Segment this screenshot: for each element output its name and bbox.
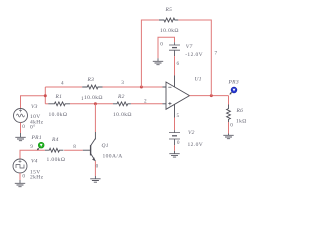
wire V7 plus to ground corner: [158, 37, 175, 58]
svg-text:R4: R4: [51, 136, 59, 143]
resistor R6: [227, 105, 231, 123]
svg-text:0: 0: [22, 124, 25, 130]
svg-text:0: 0: [160, 42, 163, 48]
svg-text:R2: R2: [117, 94, 125, 100]
wire V3 bottom to ground: [20, 123, 22, 134]
svg-text:4: 4: [61, 81, 64, 87]
svg-text:10.0kΩ: 10.0kΩ: [49, 112, 68, 118]
transistor Q1: [83, 132, 96, 161]
wire node 5 op-amp to V2: [174, 118, 176, 131]
ground at Q1 emitter: [90, 176, 100, 182]
svg-text:2: 2: [144, 99, 147, 105]
svg-text:-12.0V: -12.0V: [185, 52, 203, 58]
source V4 square: [13, 159, 27, 173]
wire output corner down to R6: [228, 96, 230, 105]
wire junction vertical to node4 row and R1 row: [44, 87, 46, 104]
ground at V4: [15, 180, 25, 187]
wire R1 row from corner to R1: [45, 103, 48, 105]
svg-text:2kHz: 2kHz: [30, 175, 44, 181]
wire R5 to feedback left vertical down to node 3: [141, 20, 159, 87]
Q1 emitter arrowhead: [92, 157, 95, 161]
svg-text:U1: U1: [195, 77, 202, 83]
wire node 1 R1 to R2: [70, 103, 113, 105]
svg-text:6: 6: [177, 61, 180, 67]
ground at R6: [223, 134, 233, 139]
svg-text:0: 0: [177, 140, 180, 146]
resistor R2: [113, 102, 131, 106]
svg-text:R5: R5: [165, 7, 173, 13]
wire V2 bottom to ground: [174, 145, 176, 151]
ground at V7: [153, 58, 163, 64]
svg-text:0: 0: [96, 164, 99, 170]
wire R6 to ground: [228, 122, 230, 134]
svg-text:0°: 0°: [30, 124, 36, 131]
battery V2: [169, 130, 180, 145]
wire op-amp output node 7: [190, 95, 229, 97]
wire V4 bottom to ground: [19, 173, 21, 180]
ground at V2: [169, 151, 179, 157]
wire V3 top to junction node: [21, 96, 46, 109]
svg-text:10.0kΩ: 10.0kΩ: [113, 112, 132, 118]
svg-text:PR1: PR1: [31, 135, 42, 141]
wire node 8 R4 to Q1 base: [64, 149, 83, 151]
resistor R5: [159, 18, 178, 22]
svg-text:10.0kΩ: 10.0kΩ: [160, 28, 179, 34]
svg-text:1: 1: [81, 96, 84, 102]
node junction dot at V3 split: [44, 94, 47, 97]
svg-text:3: 3: [121, 80, 124, 86]
svg-text:1.00kΩ: 1.00kΩ: [47, 157, 66, 163]
svg-text:8: 8: [73, 144, 76, 150]
resistor R4: [45, 148, 64, 152]
svg-text:V4: V4: [31, 158, 38, 165]
source V3 sine: [14, 109, 28, 123]
wire node 3 from R3 to op-amp minus input: [103, 86, 163, 88]
svg-text:5: 5: [177, 113, 180, 119]
wire V4 to R4 node 9: [20, 150, 45, 159]
svg-text:7: 7: [215, 51, 218, 57]
svg-text:R3: R3: [87, 77, 95, 83]
ground at V3: [15, 133, 25, 141]
svg-text:Q1: Q1: [102, 143, 109, 149]
probe PR3: [230, 87, 237, 95]
resistor R1: [48, 102, 70, 106]
svg-text:PR3: PR3: [228, 80, 239, 86]
svg-text:10.0kΩ: 10.0kΩ: [84, 95, 103, 101]
op-amp U1: [163, 76, 190, 118]
wire node 2 R2 to op-amp plus input: [131, 103, 163, 105]
node junction dot node1: [94, 102, 97, 105]
battery V7: [169, 42, 180, 56]
svg-text:12.0V: 12.0V: [188, 142, 204, 148]
svg-text:0: 0: [230, 122, 233, 128]
svg-text:1kΩ: 1kΩ: [236, 119, 247, 125]
resistor R3: [82, 85, 102, 89]
svg-text:9: 9: [30, 144, 33, 150]
svg-text:100A/A: 100A/A: [103, 154, 123, 160]
svg-text:R1: R1: [55, 94, 63, 100]
wire node 4 row to R3: [45, 86, 82, 88]
svg-text:R6: R6: [236, 108, 244, 114]
node junction dot feedback on node 3: [140, 86, 143, 89]
svg-text:V7: V7: [186, 44, 193, 50]
node junction dot output: [210, 94, 213, 97]
wire Q1 emitter to ground: [94, 161, 96, 176]
wire feedback vertical node 7: [178, 20, 211, 96]
wire V7 minus node 6 to op-amp: [174, 56, 176, 75]
svg-text:V3: V3: [31, 104, 38, 110]
probe PR1: [37, 142, 44, 150]
svg-text:0: 0: [22, 173, 25, 179]
wire node1 down to Q1 collector: [94, 104, 96, 132]
svg-text:V2: V2: [188, 130, 195, 136]
